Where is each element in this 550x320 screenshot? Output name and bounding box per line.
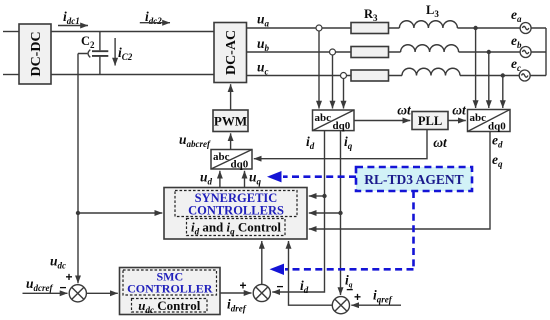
node udc branch junction [76, 211, 80, 215]
svg-text:ωt: ωt [433, 135, 448, 150]
transform abc-dq0 voltages U6 [468, 110, 511, 133]
blue action arrow to u_q [267, 171, 356, 182]
wire phase a [247, 27, 547, 29]
tap circle phase c [341, 73, 347, 79]
transform abc-dq0 currents U5 [313, 110, 355, 132]
block PWM [213, 110, 248, 132]
wire u_d to dq0-abc [219, 171, 221, 188]
svg-text:abc: abc [315, 112, 332, 124]
agent RL-TD3 [356, 167, 472, 191]
node i_d branch [322, 194, 326, 198]
capacitor C2 [92, 32, 108, 75]
source e_a [520, 23, 531, 34]
resistor R3 phase a [351, 23, 389, 34]
wire i_d branch to synergetic [309, 195, 325, 197]
blue action arrow down-left [270, 191, 414, 275]
wire udc sense vertical [77, 54, 79, 284]
source e_b [520, 47, 531, 58]
node grid a [473, 26, 477, 30]
svg-text:CONTROLLERS: CONTROLLERS [188, 204, 284, 218]
wire SMC to sum S2 [220, 292, 252, 294]
tap circle phase a [316, 25, 322, 31]
svg-text:dq0: dq0 [333, 120, 351, 132]
wire u_dcref into sum S1 [23, 292, 68, 294]
wire current tap a down [318, 31, 320, 109]
wire S3 output to synergetic [289, 241, 333, 305]
transform dq0-abc U3 [211, 150, 252, 171]
svg-text:+: + [65, 270, 72, 284]
controller SMC [120, 268, 221, 316]
wire dc bus top rail [51, 31, 214, 33]
wire dc input stub top [3, 31, 19, 33]
node grid b [487, 50, 491, 54]
block PLL [412, 112, 448, 130]
inductor L3 phase a [399, 21, 457, 28]
sum S2 [253, 284, 270, 301]
wire u_q to dq0-abc [244, 171, 246, 188]
wire grid bus [545, 28, 547, 76]
wire voltage tap a down [475, 28, 477, 108]
svg-text:DC-AC: DC-AC [224, 30, 239, 75]
wire dq0-abc to PWM [230, 133, 232, 149]
wire i_d vertical and into sum S2 [272, 131, 324, 292]
wire dc input stub bottom [3, 74, 19, 76]
arrow i_C2 [114, 38, 116, 66]
source e_c [519, 70, 530, 81]
svg-text:CONTROLLER: CONTROLLER [127, 282, 213, 296]
svg-text:−: − [276, 280, 283, 294]
sum S3 [332, 297, 349, 314]
svg-text:−: − [346, 283, 353, 297]
node grid c [501, 73, 505, 77]
node i_q branch [338, 211, 342, 215]
svg-text:+: + [354, 290, 361, 304]
converter DC-AC [214, 23, 247, 83]
svg-text:+: + [239, 279, 246, 293]
svg-text:dq0: dq0 [231, 159, 249, 171]
resistor R3 phase b [351, 47, 389, 58]
wire S2 up to synergetic [261, 241, 263, 284]
wire abc-dq0 to PLL [354, 120, 410, 122]
resistor R3 phase c [351, 70, 389, 81]
controller SYNERGETIC [164, 188, 307, 240]
svg-text:PWM: PWM [214, 114, 247, 129]
svg-text:ωt: ωt [397, 103, 412, 118]
wire voltage tap b down [488, 52, 490, 108]
wire udc sense hook at capacitor [78, 50, 90, 58]
arrow i_dc2 [140, 22, 170, 24]
wire S1 to SMC [86, 292, 117, 294]
svg-text:−: − [59, 281, 66, 295]
wire PWM to DC-AC [230, 84, 232, 110]
wire phase b [247, 51, 547, 53]
wire i_qref into S3 [351, 304, 401, 306]
wire i_q vertical to sum S3 [340, 131, 342, 295]
svg-text:ωt: ωt [452, 103, 467, 118]
wire PLL to abc-dq0 voltages [448, 120, 466, 122]
wire i_q branch to synergetic [309, 212, 341, 214]
wire PLL wt down to dq0-abc [254, 130, 427, 159]
wire voltage tap c down [502, 76, 504, 109]
svg-text:abc: abc [470, 112, 487, 124]
svg-text:abc: abc [213, 151, 230, 163]
converter DC-DC [19, 24, 51, 84]
svg-text:PLL: PLL [418, 114, 442, 128]
wire dc bus bottom rail [51, 74, 214, 76]
svg-text:dq0: dq0 [488, 121, 506, 133]
sum S1 [69, 285, 86, 302]
inductor L3 phase b [401, 45, 459, 52]
wire current tap c down [343, 79, 345, 109]
arrow i_dc1 [58, 25, 88, 27]
svg-text:RL-TD3 AGENT: RL-TD3 AGENT [364, 172, 463, 187]
wire u_dc branch to synergetic [78, 212, 162, 214]
wire phase c [247, 75, 547, 77]
wire current tap b down [332, 55, 334, 109]
svg-text:DC-DC: DC-DC [29, 31, 44, 76]
wire e_dq down and into synergetic [309, 132, 490, 230]
svg-text:id and iq Control: id and iq Control [191, 220, 281, 237]
inductor L3 phase c [402, 68, 460, 75]
tap circle phase b [330, 49, 336, 55]
